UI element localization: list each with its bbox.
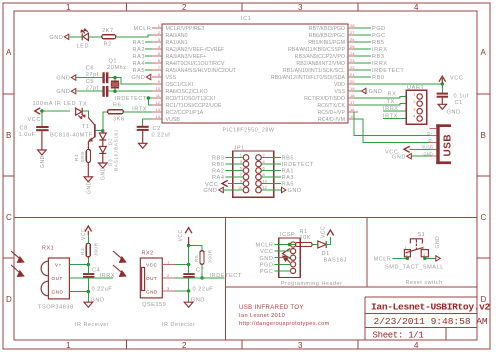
svg-text:0.22uf: 0.22uf <box>152 133 171 139</box>
wire junction up to R3 <box>87 257 89 265</box>
R5 name label <box>194 249 214 263</box>
wire R1 to D1 <box>312 244 318 246</box>
IC1 left pin stubs 1-14 <box>152 28 162 119</box>
wire VCC to JP1 pin 9 <box>228 183 243 185</box>
IC1 left pin numbers <box>156 23 161 119</box>
junction node C8 branch <box>40 109 43 112</box>
svg-text:28: 28 <box>350 23 355 28</box>
connector UART header box <box>406 90 426 124</box>
wire C5 to crystal node <box>108 90 115 92</box>
R3 name label <box>80 242 100 256</box>
svg-text:RX: RX <box>388 92 397 98</box>
wire PGD to ICSP pin 4 <box>275 263 291 265</box>
IR receiver RX1 body TSOP34838 <box>41 258 69 299</box>
wire R6 to IC pin 13 <box>123 111 152 113</box>
wire RX2 GND to junction <box>175 290 189 292</box>
wire D2 to D3 <box>102 140 104 146</box>
svg-text:LED: LED <box>77 44 90 50</box>
svg-text:VCC: VCC <box>178 229 184 241</box>
wire R5 down to OUT row <box>201 264 203 278</box>
svg-text:GND: GND <box>101 167 107 180</box>
svg-text:Ian Lesnet 2010: Ian Lesnet 2010 <box>239 313 285 319</box>
junction node IRDETECT <box>147 96 150 99</box>
svg-text:IRRX: IRRX <box>372 47 388 53</box>
svg-text:VCC: VCC <box>321 226 327 238</box>
svg-text:B: B <box>6 131 12 140</box>
svg-text:RX1: RX1 <box>42 246 54 252</box>
wire GND to C6 <box>76 77 103 79</box>
svg-text:TX: TX <box>387 99 395 105</box>
wire C8 to ground <box>41 131 43 150</box>
ground C2 <box>138 143 147 148</box>
section divider horizontal under header boxes <box>226 286 477 288</box>
svg-text:GND: GND <box>203 188 217 194</box>
wire RX2 OUT to IRDETECT <box>175 277 225 279</box>
svg-text:RB0/AN12/INT0/FLT0/SDI/SDA: RB0/AN12/INT0/FLT0/SDI/SDA <box>271 75 346 81</box>
vcc supply at USB VUSB <box>385 146 410 155</box>
svg-text:R5: R5 <box>194 255 200 262</box>
USB pin stubs <box>430 129 437 157</box>
svg-text:A: A <box>481 48 487 57</box>
wire RB5 to pin 26 <box>354 41 371 43</box>
svg-text:3: 3 <box>240 159 243 164</box>
capacitor C5 <box>102 86 108 97</box>
svg-text:390R: 390R <box>208 249 214 263</box>
capacitor C2 <box>137 126 149 131</box>
svg-text:2: 2 <box>182 3 187 12</box>
svg-text:C7: C7 <box>196 268 204 274</box>
wire D3 to ground <box>102 153 104 163</box>
svg-text:1: 1 <box>405 246 407 250</box>
junction node RX2 GND <box>187 289 190 292</box>
svg-text:MCLR/VPP/RE3: MCLR/VPP/RE3 <box>166 26 205 32</box>
capacitor C1 <box>437 93 448 98</box>
wire RC7 pin 18 to UART pin 1 <box>354 97 406 99</box>
svg-text:S1: S1 <box>418 232 426 238</box>
svg-text:IRDETECT: IRDETECT <box>115 96 147 102</box>
svg-text:2: 2 <box>182 341 187 350</box>
resistor R5 <box>200 251 204 265</box>
svg-text:13: 13 <box>156 107 161 112</box>
svg-text:25: 25 <box>350 44 355 49</box>
wire VCC to USB VUSB pin <box>410 148 430 150</box>
svg-text:RX2: RX2 <box>142 251 154 257</box>
svg-text:D: D <box>6 295 12 304</box>
junction node VCC branch <box>187 244 190 247</box>
section divider vertical left of programming header <box>225 218 227 341</box>
IC1 left pin names <box>166 26 237 123</box>
svg-text:6R8: 6R8 <box>80 152 86 162</box>
JP1 even pin numbers <box>263 153 268 191</box>
diode D2 BAS16J <box>99 129 119 150</box>
svg-text:MCLR: MCLR <box>133 26 151 32</box>
wire VCC branch to R5 <box>189 246 202 251</box>
svg-text:RB7/KBI3/PGD: RB7/KBI3/PGD <box>309 26 345 32</box>
svg-text:BC818-40MTF: BC818-40MTF <box>50 133 93 139</box>
wire D1 to VCC <box>326 237 330 245</box>
svg-text:PGC: PGC <box>260 269 274 275</box>
svg-text:16: 16 <box>350 107 355 112</box>
switch S1 SMD_TACT_SMALL <box>404 239 428 257</box>
svg-text:17: 17 <box>350 100 355 105</box>
svg-text:GND: GND <box>288 188 302 194</box>
vcc supply at JP1 pin 9 <box>205 180 228 188</box>
wire GND to USB pin <box>411 155 429 157</box>
svg-text:2K7: 2K7 <box>102 28 114 34</box>
svg-text:A: A <box>6 48 12 57</box>
svg-text:RA4/T0CKI/C1OUT/RCV: RA4/T0CKI/C1OUT/RCV <box>166 61 225 67</box>
svg-text:TSOP34838: TSOP34838 <box>38 305 74 311</box>
svg-text:VCC: VCC <box>81 228 87 240</box>
svg-text:3: 3 <box>422 246 424 250</box>
RX2 pin stubs and numbers <box>162 265 175 292</box>
frame row labels left <box>6 48 12 304</box>
R4 name label <box>74 152 86 162</box>
frame column ticks top <box>127 3 359 11</box>
svg-text:RB3: RB3 <box>372 54 385 60</box>
ground C8 <box>38 150 47 168</box>
wire RA3 to pin 5 <box>145 55 152 57</box>
frame column labels top <box>66 3 419 12</box>
connector USB <box>436 124 451 164</box>
wire ICSP MCLR junction to R1 <box>289 244 295 246</box>
svg-text:IRTX: IRTX <box>383 114 398 120</box>
svg-text:10: 10 <box>263 179 268 184</box>
svg-text:PIC18F2550_28W: PIC18F2550_28W <box>223 128 275 134</box>
svg-text:RA1: RA1 <box>282 169 295 175</box>
junction node S1 right <box>423 257 426 260</box>
wire C4 down to GND row <box>87 278 89 292</box>
svg-text:11: 11 <box>156 93 161 98</box>
svg-text:Sheet: 1/1: Sheet: 1/1 <box>373 331 424 341</box>
ICSP arrow decoration <box>283 249 291 263</box>
wire RX1 OUT to IRRX <box>69 277 113 279</box>
svg-text:2: 2 <box>263 153 266 158</box>
junction node ICSP MCLR <box>288 243 291 246</box>
wire VCC to TX LED <box>40 110 70 112</box>
svg-text:100mA IR LED: 100mA IR LED <box>33 101 77 107</box>
wire S1 right to ground <box>425 257 436 259</box>
svg-text:RC4/D-/VM: RC4/D-/VM <box>318 117 345 123</box>
svg-text:GND: GND <box>91 298 105 304</box>
wire C6 to crystal node <box>108 77 115 79</box>
capacitor C8 <box>36 126 48 131</box>
wire junction up to R6 <box>103 112 108 131</box>
vcc supply above R3 <box>81 226 92 240</box>
vcc supply above RX2 <box>178 228 192 246</box>
svg-text:C: C <box>6 213 12 222</box>
ground at JP1 pin 11 <box>203 187 223 194</box>
svg-text:BAS16J: BAS16J <box>114 150 120 171</box>
S1 pin stubs <box>407 257 424 259</box>
wire RC5 pin 16 to USB D+ <box>354 112 430 136</box>
svg-text:TX: TX <box>79 102 87 108</box>
svg-text:20: 20 <box>350 79 355 84</box>
svg-text:GND: GND <box>52 290 64 295</box>
svg-text:1: 1 <box>158 23 161 28</box>
svg-text:RB6/KBI2/PGC: RB6/KBI2/PGC <box>309 33 345 39</box>
wire crystal bottom to IC pin 10 <box>115 90 152 92</box>
svg-text:GND: GND <box>392 155 406 161</box>
wire junction up to VCC branch <box>188 246 190 265</box>
svg-text:GND: GND <box>49 35 63 41</box>
svg-text:2: 2 <box>167 273 170 278</box>
wire MCLR to S1 <box>393 257 408 259</box>
wire JP1 pin 4 to IRDETECT <box>261 163 281 165</box>
svg-text:RB1/AN10/INT1/SCK/SCL: RB1/AN10/INT1/SCK/SCL <box>283 68 345 74</box>
svg-text:RC2/CCP1/P1A: RC2/CCP1/P1A <box>166 110 204 116</box>
ground at IC pin 19 <box>354 88 383 95</box>
junction node R5 OUT <box>200 276 203 279</box>
capacitor C6 <box>102 72 108 83</box>
svg-text:4: 4 <box>263 159 266 164</box>
svg-text:0.1uf: 0.1uf <box>454 94 469 100</box>
svg-text:RB0: RB0 <box>212 162 225 168</box>
ground at S1 <box>435 236 441 261</box>
svg-text:V+: V+ <box>55 262 62 267</box>
svg-text:OSC1/CLKI: OSC1/CLKI <box>166 82 194 88</box>
svg-text:VSS: VSS <box>334 89 345 95</box>
svg-text:14: 14 <box>156 114 161 119</box>
wire IRDETECT to pin 22 <box>354 69 371 71</box>
svg-text:IRRX: IRRX <box>383 106 399 112</box>
ground C1 <box>438 104 461 115</box>
svg-text:20Mhz: 20Mhz <box>107 65 127 71</box>
svg-text:MCLR: MCLR <box>255 243 273 249</box>
svg-text:RC7/RX/DT/SDO: RC7/RX/DT/SDO <box>304 96 345 102</box>
svg-text:7: 7 <box>158 65 161 70</box>
svg-text:10: 10 <box>156 86 161 91</box>
svg-text:USB: USB <box>443 134 454 157</box>
svg-text:SMD_TACT_SMALL: SMD_TACT_SMALL <box>385 265 444 271</box>
svg-text:11: 11 <box>238 185 243 190</box>
svg-text:JP1: JP1 <box>234 146 245 152</box>
svg-text:Ian-Lesnet-USBIRtoy.v2: Ian-Lesnet-USBIRtoy.v2 <box>371 302 491 313</box>
svg-text:B: B <box>481 131 487 140</box>
wire base to R6 junction <box>96 130 103 132</box>
svg-text:390R: 390R <box>94 242 100 256</box>
svg-text:GND: GND <box>259 256 273 262</box>
junction node crystal top <box>113 76 116 79</box>
wire JP1 pin 2 to RB5 <box>261 157 281 159</box>
resistor R3 <box>86 243 90 257</box>
svg-text:8: 8 <box>158 72 161 77</box>
svg-text:0.22uF: 0.22uF <box>193 287 214 293</box>
vcc supply above C1 <box>439 76 446 84</box>
svg-text:VUSB: VUSB <box>421 145 433 150</box>
wire C2 to ground <box>142 131 144 143</box>
svg-text:3: 3 <box>413 106 416 111</box>
svg-text:GND: GND <box>435 236 441 249</box>
svg-text:1: 1 <box>167 260 170 265</box>
wire IRTX to UART pin 4 <box>383 118 406 120</box>
JP1 pin circles left column <box>243 155 249 193</box>
svg-text:IC1: IC1 <box>241 16 251 22</box>
svg-text:RB5: RB5 <box>282 156 295 162</box>
svg-text:VCC: VCC <box>205 182 218 188</box>
svg-text:12: 12 <box>263 185 268 190</box>
ground C5 <box>56 89 75 96</box>
svg-text:8: 8 <box>263 172 266 177</box>
svg-text:3: 3 <box>167 286 170 291</box>
svg-text:3: 3 <box>298 3 303 12</box>
svg-text:BAS16J: BAS16J <box>114 129 120 150</box>
svg-text:RB0: RB0 <box>372 75 385 81</box>
svg-text:RA3: RA3 <box>132 54 145 60</box>
vcc supply above D1 <box>321 226 334 238</box>
svg-text:7: 7 <box>240 172 243 177</box>
wire RA2 to pin 4 <box>145 48 152 50</box>
LED TX (IR LED) <box>76 108 85 119</box>
section divider horizontal <box>14 217 477 219</box>
wire emitter to R4 <box>87 148 89 150</box>
svg-text:T1: T1 <box>82 124 90 130</box>
frame row labels right <box>481 48 487 304</box>
IC1 right pin stubs 15-28 <box>348 28 358 119</box>
wire IRDETECT junction to pin 12 <box>148 98 152 105</box>
svg-text:VCC: VCC <box>146 262 157 267</box>
wire RB0 to pin 21 <box>354 76 371 78</box>
svg-text:RA2/AN2/VREF-/CVREF: RA2/AN2/VREF-/CVREF <box>166 47 226 53</box>
crystal Q1 <box>111 78 119 92</box>
svg-text:1.0uF: 1.0uF <box>19 132 36 138</box>
wire JP1 pin 6 to RA1 <box>261 170 281 172</box>
wire LED1 to R2 <box>88 36 101 38</box>
svg-text:9: 9 <box>240 179 243 184</box>
svg-text:IR Receiver: IR Receiver <box>75 322 109 328</box>
wire RB0 to JP1 pin 3 <box>226 163 244 165</box>
svg-text:RB3/AN9/CCP2/VPO: RB3/AN9/CCP2/VPO <box>295 54 345 60</box>
S1 pin numbers <box>405 246 426 257</box>
frame column labels bottom <box>66 341 419 350</box>
wire GND to C5 <box>76 90 103 92</box>
IR arrows into RX2 <box>113 251 126 276</box>
capacitor C4 <box>83 273 94 278</box>
section divider between programming header and reset switch <box>366 218 368 287</box>
svg-text:USB INFRARED TOY: USB INFRARED TOY <box>239 305 304 311</box>
svg-text:RB5/KBI1/PGM: RB5/KBI1/PGM <box>308 40 345 46</box>
svg-text:IRRX: IRRX <box>100 273 116 279</box>
svg-text:RA3/AN3/VREF+: RA3/AN3/VREF+ <box>166 54 207 60</box>
svg-text:GND: GND <box>87 181 93 194</box>
wire IRRX to UART pin 3 <box>383 110 406 112</box>
svg-text:VCC: VCC <box>260 249 273 255</box>
wire R3 to VCC <box>87 235 89 243</box>
svg-text:RA5/AN4/SS/HLVDIN/C2OUT: RA5/AN4/SS/HLVDIN/C2OUT <box>166 68 237 74</box>
svg-text:Q1: Q1 <box>109 59 118 65</box>
svg-text:BAS16J: BAS16J <box>324 258 348 264</box>
wire pin 14 down to C2 <box>143 119 152 126</box>
wire MCLR to ICSP pin 1 <box>275 244 291 246</box>
svg-text:1: 1 <box>240 153 243 158</box>
svg-text:6: 6 <box>158 58 161 63</box>
svg-text:GND: GND <box>146 289 158 294</box>
svg-text:D2: D2 <box>108 138 114 145</box>
wire RX1 GND to junction <box>69 291 88 293</box>
wire PGC to ICSP pin 5 <box>275 270 291 272</box>
svg-text:1: 1 <box>413 92 416 97</box>
svg-text:IRDETECT: IRDETECT <box>282 162 314 168</box>
wire GND to JP1 pin 11 <box>223 189 243 191</box>
svg-text:RA4: RA4 <box>212 175 225 181</box>
svg-text:27: 27 <box>350 30 355 35</box>
svg-text:RB4/AN11/KBI0/CSSPP: RB4/AN11/KBI0/CSSPP <box>288 47 345 53</box>
wire JP1 pin 10 to RA5 <box>261 183 281 185</box>
resistor R6 <box>108 110 124 114</box>
svg-text:RA2: RA2 <box>212 169 225 175</box>
svg-text:22: 22 <box>350 65 355 70</box>
svg-text:1: 1 <box>66 3 71 12</box>
svg-text:2: 2 <box>406 253 408 257</box>
svg-text:GND: GND <box>40 155 46 168</box>
IR detector RX2 body QSE159 <box>140 258 162 298</box>
svg-text:0.22uF: 0.22uF <box>92 287 113 293</box>
svg-text:19: 19 <box>350 86 355 91</box>
svg-text:C: C <box>481 213 487 222</box>
svg-text:4: 4 <box>414 3 419 12</box>
wire junction to ground <box>87 292 89 303</box>
wire RC4 pin 15 to USB D- <box>354 119 430 142</box>
svg-text:RA0/AN0: RA0/AN0 <box>166 33 188 39</box>
resistor R1 <box>295 242 312 246</box>
svg-text:OUT: OUT <box>146 276 157 281</box>
svg-text:RA1: RA1 <box>132 40 145 46</box>
JP1 pin circles right column <box>256 155 262 193</box>
wire junction down to C8 <box>41 111 43 126</box>
svg-text:OUT: OUT <box>52 276 63 281</box>
svg-text:R3: R3 <box>80 248 86 255</box>
svg-text:D1: D1 <box>322 251 330 257</box>
svg-text:RB5: RB5 <box>372 40 385 46</box>
connector JP1 header box <box>233 151 274 197</box>
wire junction down to C4 <box>87 265 89 274</box>
svg-text:D+: D+ <box>427 131 433 136</box>
ground LED1 net <box>49 34 68 41</box>
svg-text:2: 2 <box>158 30 161 35</box>
wire IRDETECT to pin 11 <box>148 97 152 99</box>
wire GND to ICSP pin 3 <box>275 257 291 259</box>
svg-text:C8: C8 <box>20 126 28 132</box>
svg-text:http://dangerousprototypes.com: http://dangerousprototypes.com <box>239 321 330 327</box>
svg-text:R4: R4 <box>74 154 80 161</box>
ground C6 <box>56 75 75 82</box>
svg-text:5: 5 <box>240 166 243 171</box>
title block box <box>365 297 477 340</box>
svg-text:RC1/T1OSI/CCP2/UOE: RC1/T1OSI/CCP2/UOE <box>166 103 222 109</box>
svg-text:D-: D- <box>428 138 433 143</box>
svg-text:RB2/AN8/INT2/VMO: RB2/AN8/INT2/VMO <box>296 61 345 67</box>
svg-text:VUSB: VUSB <box>166 117 181 123</box>
ground RX2 <box>184 298 205 308</box>
svg-text:IRRX: IRRX <box>372 61 388 67</box>
svg-text:5: 5 <box>158 51 161 56</box>
wire PGC to pin 27 <box>354 34 371 36</box>
wire RA2 to JP1 pin 5 <box>226 170 244 172</box>
wire RB3 to pin 24 <box>354 55 371 57</box>
svg-text:D3: D3 <box>108 159 114 166</box>
svg-text:4: 4 <box>423 253 425 257</box>
svg-text:4: 4 <box>413 114 416 119</box>
wire RX1 V+ to junction <box>69 264 88 266</box>
svg-text:PGD: PGD <box>372 26 386 32</box>
wire RA5 to pin 7 <box>145 69 152 71</box>
svg-text:3: 3 <box>298 341 303 350</box>
svg-text:IR Detector: IR Detector <box>162 322 195 328</box>
svg-text:1: 1 <box>66 341 71 350</box>
UART pin numbers <box>413 92 416 119</box>
svg-text:24: 24 <box>350 51 355 56</box>
svg-text:GND: GND <box>131 75 145 81</box>
